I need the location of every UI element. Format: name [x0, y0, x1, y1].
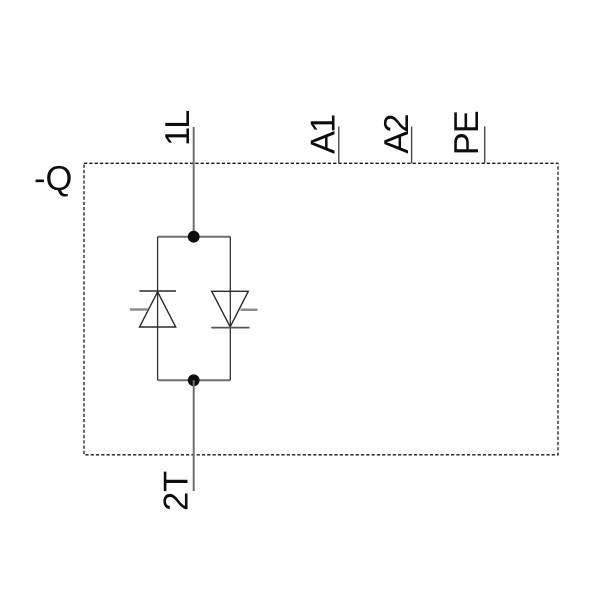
thyristor V2 cathode bar	[211, 327, 249, 329]
svg-text:PE: PE	[448, 111, 486, 155]
svg-text:2T: 2T	[158, 471, 196, 511]
wire parallel-branch top	[158, 236, 231, 238]
wire PE terminal stub	[484, 127, 486, 164]
thyristor V2 triangle	[212, 291, 249, 327]
thyristor V1 cathode bar	[139, 290, 176, 292]
node junction bottom	[188, 374, 200, 386]
thyristor V2 gate lead	[241, 309, 258, 312]
wire left branch vertical	[157, 237, 159, 381]
svg-text:-Q: -Q	[34, 160, 72, 198]
wire A1 terminal stub	[338, 127, 340, 164]
wire right branch vertical	[229, 237, 231, 381]
wire 2T terminal lead	[193, 380, 195, 491]
thyristor V1 triangle	[140, 292, 176, 327]
svg-text:A2: A2	[378, 115, 416, 154]
enclosure dashed boundary box	[84, 163, 558, 455]
wire parallel-branch bottom	[158, 379, 231, 381]
wire 1L terminal lead	[193, 127, 195, 237]
svg-text:A1: A1	[304, 115, 342, 154]
thyristor V1 gate lead	[130, 308, 148, 311]
svg-text:1L: 1L	[159, 110, 197, 146]
node junction top	[188, 231, 200, 243]
wire A2 terminal stub	[411, 127, 413, 164]
